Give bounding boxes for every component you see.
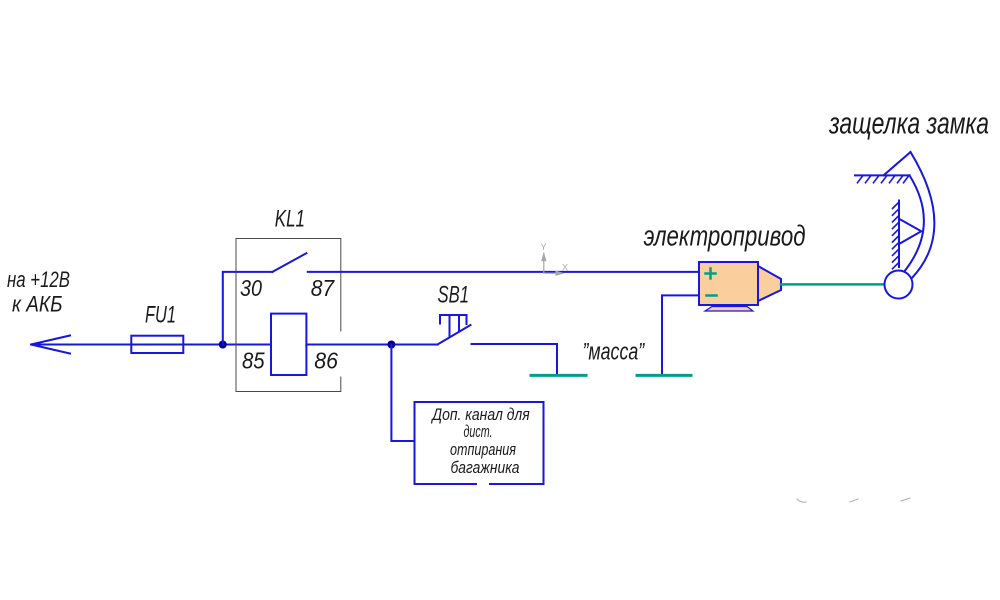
watermark: XY axis marker bbox=[542, 254, 563, 276]
relay KL1 box bbox=[236, 239, 341, 392]
wire: contact 87 to actuator plus bbox=[308, 271, 699, 273]
svg-text:86: 86 bbox=[314, 348, 338, 374]
svg-text:SB1: SB1 bbox=[438, 282, 470, 309]
actuator body bbox=[699, 262, 758, 305]
latch wall hatching bbox=[858, 175, 910, 182]
latch rack vertical line bbox=[898, 201, 900, 268]
arrowhead: open arrow to AKB bbox=[31, 336, 70, 354]
svg-text:KL1: KL1 bbox=[275, 206, 305, 233]
wire: main horizontal bus from arrow to relay coil bbox=[31, 344, 271, 346]
wire: junction 2 down to remote channel box bbox=[391, 345, 414, 442]
latch inner arc bbox=[904, 175, 924, 272]
wire: actuator minus to ground 2 bbox=[662, 295, 699, 374]
wire: SB1 to ground 1 bbox=[472, 344, 558, 374]
node: junction dot left of relay bbox=[219, 341, 227, 349]
actuator minus sign bbox=[707, 294, 717, 297]
ground bar 1 bbox=[531, 374, 586, 377]
latch outer arc bbox=[911, 152, 935, 279]
faint artifact marks bottom right bbox=[797, 499, 806, 502]
relay coil 85-86 bbox=[271, 314, 306, 375]
SB1 blade bbox=[438, 325, 471, 345]
svg-text:85: 85 bbox=[242, 348, 266, 374]
fuse FU1 bbox=[131, 336, 183, 353]
latch peak bbox=[884, 152, 911, 175]
actuator nose bbox=[758, 266, 781, 301]
svg-text:”масса”: ”масса” bbox=[583, 338, 645, 365]
svg-text:30: 30 bbox=[240, 275, 262, 301]
svg-text:X: X bbox=[562, 263, 568, 273]
latch roller circle bbox=[885, 271, 913, 299]
svg-text:87: 87 bbox=[311, 275, 335, 301]
relay contact blade 30-87 bbox=[272, 253, 306, 272]
rod: actuator to latch roller bbox=[781, 283, 886, 286]
svg-text:защелка замка: защелка замка bbox=[828, 106, 989, 141]
svg-text:к АКБ: к АКБ bbox=[12, 291, 63, 316]
wire: vertical up from junction to contact 30 bbox=[223, 272, 273, 345]
svg-text:электропривод: электропривод bbox=[644, 220, 806, 252]
box: remote trunk channel bbox=[415, 402, 544, 484]
box border notch artifact bbox=[477, 482, 489, 487]
actuator plus sign bbox=[706, 269, 716, 279]
svg-text:FU1: FU1 bbox=[145, 301, 176, 328]
svg-text:Y: Y bbox=[541, 242, 547, 252]
svg-text:дист.: дист. bbox=[464, 422, 493, 441]
SB1 button cap bbox=[440, 315, 467, 336]
latch wall line bbox=[855, 174, 910, 176]
latch pawl triangle bbox=[899, 219, 921, 244]
ground bar 2 bbox=[637, 374, 691, 377]
svg-text:на +12В: на +12В bbox=[7, 267, 70, 292]
svg-text:отпирания: отпирания bbox=[450, 440, 516, 459]
svg-text:багажника: багажника bbox=[451, 458, 520, 477]
node: junction dot 2 bbox=[387, 341, 395, 349]
latch rack hatching bbox=[893, 202, 900, 269]
actuator foot bbox=[705, 307, 753, 312]
wire: coil 86 to junction 2 and SB1 bbox=[306, 344, 437, 346]
